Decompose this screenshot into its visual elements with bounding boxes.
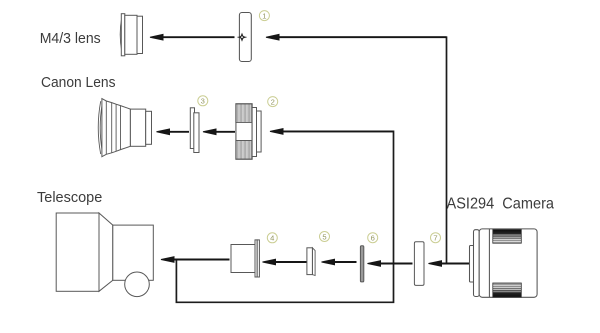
camera heatsink bottom [493, 283, 522, 297]
circled 5 [320, 232, 330, 242]
adapter 7 (spacer ring) [414, 242, 424, 286]
circled 4 [267, 233, 277, 243]
arrow adapter1 to M4/3 lens [150, 34, 235, 40]
circled 6 [368, 233, 378, 243]
svg-text:2: 2 [271, 97, 275, 106]
camera heatsink top [493, 230, 522, 244]
circled 2 [268, 97, 278, 107]
thumbscrew on adapter 1 [237, 33, 246, 42]
adapter 3 (thin flange) [190, 108, 199, 153]
arrow wire to adapter2 [270, 129, 394, 135]
svg-text:3: 3 [201, 97, 205, 106]
svg-text:Telescope: Telescope [37, 190, 102, 206]
adapter 6 (gray spacer bar) [360, 246, 363, 282]
circled 3 [198, 96, 208, 106]
wire loop from telescope row to adapter 2 row [176, 131, 393, 302]
arrow camera to adapter7 [429, 261, 470, 267]
circled 7 [431, 233, 441, 243]
arrow adapter4 to telescope [161, 257, 230, 263]
adapter 2 (EOS T-ring) [236, 104, 261, 159]
M4/3 lens drawing [120, 14, 142, 56]
svg-text:1: 1 [262, 11, 266, 20]
adapter 4 (nosepiece with flange) [231, 240, 259, 277]
circled 1 [259, 11, 269, 21]
Canon lens drawing [98, 99, 151, 157]
svg-text:M4/3 lens: M4/3 lens [40, 31, 101, 47]
svg-text:7: 7 [433, 234, 437, 243]
arrow adapter7 to adapter6 [368, 261, 413, 267]
camera ASI294 body [470, 229, 538, 297]
arrow adapter6 to adapter5 [322, 259, 357, 265]
svg-text:ASI294 Camera: ASI294 Camera [447, 196, 555, 213]
svg-text:4: 4 [270, 234, 274, 243]
svg-text:6: 6 [371, 234, 375, 243]
svg-text:5: 5 [322, 232, 326, 241]
Telescope drawing [56, 213, 153, 297]
wire from camera to adapter 1 row [278, 37, 447, 263]
arrow adapter2 to adapter3 [203, 129, 235, 135]
svg-text:Canon Lens: Canon Lens [41, 75, 116, 91]
arrow wire to adapter1 [266, 34, 447, 40]
arrow adapter5 to adapter4 [263, 259, 307, 265]
adapter 5 (thin slab) [307, 248, 315, 276]
arrow adapter3 to Canon lens [157, 129, 190, 135]
adapter 1 (M4/3 adapter) [239, 13, 251, 62]
